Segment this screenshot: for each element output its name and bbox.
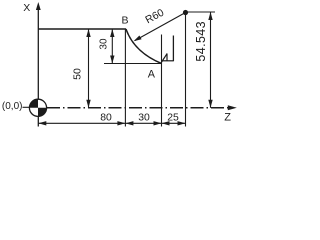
dimension 54.543 top arrow: [208, 12, 212, 20]
extension line below B: [124, 29, 126, 127]
svg-text:(0,0): (0,0): [2, 101, 23, 112]
dimension 54.543 line: [210, 12, 212, 108]
dim 30 left arrow: [125, 121, 133, 125]
svg-text:50: 50: [72, 68, 84, 80]
Z axis: [47, 107, 230, 109]
dimension 50 bottom arrow: [86, 100, 90, 108]
bottom dimension line: [38, 122, 185, 124]
svg-text:A: A: [148, 68, 156, 80]
svg-text:80: 80: [100, 113, 112, 124]
svg-text:25: 25: [167, 113, 179, 124]
dimension 50 line: [88, 29, 90, 108]
dim 80 left arrow: [38, 121, 46, 125]
arc R60 from B to A: [126, 29, 162, 64]
A-level extension line: [104, 63, 162, 65]
svg-text:X: X: [23, 2, 30, 14]
dim 25 right arrow: [178, 121, 186, 125]
dimension 54.543 bottom arrow: [208, 100, 212, 108]
dim 25 left arrow: [162, 121, 170, 125]
dimension 30 vertical top arrow: [110, 29, 114, 37]
dimension 30 vertical bottom arrow: [110, 56, 114, 64]
dim 30 right arrow: [154, 121, 162, 125]
extension/tool line through A: [161, 35, 163, 127]
dimension 54.543 extension line: [188, 11, 215, 13]
X axis arrowhead: [36, 2, 41, 10]
arc center dot: [183, 10, 188, 15]
tool insert diagonal: [162, 53, 168, 62]
origin leader: [23, 106, 30, 108]
dimension 30 vertical line: [111, 29, 113, 64]
svg-text:54.543: 54.543: [194, 21, 208, 62]
dimension 50 top arrow: [86, 29, 90, 37]
R60 leader line: [135, 13, 186, 41]
X axis: [37, 8, 39, 127]
tool right edge: [172, 36, 174, 62]
svg-text:B: B: [121, 14, 128, 26]
dim 80 right arrow: [117, 121, 125, 125]
Z axis arrowhead: [228, 105, 237, 110]
svg-text:Z: Z: [224, 111, 231, 123]
R60 leader arrowhead: [134, 36, 142, 42]
top profile line: [38, 28, 126, 30]
right boundary extension line: [185, 13, 187, 127]
tool insert inner edge: [166, 54, 168, 61]
tool insert bottom edge: [163, 60, 174, 62]
svg-text:30: 30: [138, 113, 150, 124]
origin datum symbol: [29, 99, 46, 116]
svg-text:30: 30: [99, 38, 110, 50]
